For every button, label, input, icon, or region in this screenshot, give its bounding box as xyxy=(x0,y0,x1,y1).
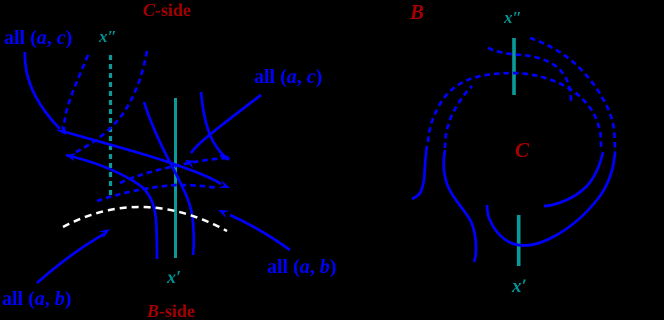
svg-text:B: B xyxy=(409,0,424,24)
arrow A3 from bottom-left all(a,b) xyxy=(37,234,104,283)
white dashed arc xyxy=(63,207,227,231)
teal solid line x' right xyxy=(517,215,521,266)
solid arrow L1 xyxy=(62,131,221,184)
dashed curve D6 xyxy=(97,185,218,201)
svg-text:all (a, b): all (a, b) xyxy=(2,288,71,310)
dashed curve D1 xyxy=(64,55,88,131)
solid curve L2 with down tail xyxy=(66,155,157,259)
svg-text:x′: x′ xyxy=(166,267,181,287)
arrow A1 from label all(a,c) xyxy=(25,52,60,129)
teal dashed vertical line x'' xyxy=(109,55,112,198)
svg-text:all (a, c): all (a, c) xyxy=(254,66,322,88)
solid big U (outer arm) xyxy=(487,152,615,245)
svg-text:all (a, b): all (a, b) xyxy=(267,256,336,278)
dashed arc middle long (continues H1 tail) xyxy=(428,73,601,151)
teal solid line x'' right xyxy=(512,38,516,95)
arrow A4 from bottom-right all(a,b) xyxy=(230,215,290,250)
dashed curve D4 xyxy=(120,158,225,183)
svg-text:C-side: C-side xyxy=(143,0,191,20)
svg-text:all (a, c): all (a, c) xyxy=(4,27,72,49)
solid left hook H2 xyxy=(444,150,476,262)
svg-text:x″: x″ xyxy=(503,8,522,27)
solid curve S3 xyxy=(201,92,226,158)
dashed arc inner top xyxy=(488,48,571,101)
dashed tail of left hook H2 xyxy=(445,86,472,148)
svg-text:x″: x″ xyxy=(98,27,117,46)
arrow A2 from right all(a,c) xyxy=(191,95,261,153)
dashed arc outer xyxy=(530,38,615,152)
svg-text:x′: x′ xyxy=(511,276,527,297)
svg-text:B-side: B-side xyxy=(146,301,195,320)
svg-text:C: C xyxy=(515,138,530,162)
solid left hook H1 xyxy=(412,146,427,199)
teal solid vertical line x' xyxy=(174,98,177,258)
dashed arrow D2 xyxy=(76,51,147,152)
solid curve B xyxy=(144,102,194,255)
solid upper short arc (middle arm end) xyxy=(544,152,603,206)
